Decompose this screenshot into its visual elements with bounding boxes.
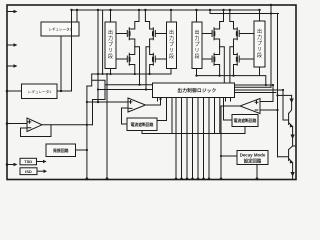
wire reg2 bottom	[60, 36, 62, 91]
wire block C bottom	[196, 69, 198, 76]
svg-text:TSD: TSD	[24, 159, 32, 164]
wire decay input	[221, 155, 237, 157]
wire ISD arrow	[37, 170, 44, 172]
wire block A top	[110, 10, 112, 22]
wire block D top	[259, 10, 261, 21]
wire block B bottom	[170, 69, 172, 75]
junction dots	[70, 9, 72, 11]
wire decay bottom	[256, 165, 258, 180]
VM supply rail	[72, 9, 260, 11]
wire block A left control	[87, 74, 153, 125]
wire sense pin drop x107	[106, 74, 108, 179]
node OUT3	[220, 47, 225, 83]
oscillator box	[46, 144, 76, 157]
pin arrow 3	[14, 64, 18, 68]
svg-text:設定回路: 設定回路	[244, 157, 262, 164]
transistor Q7 high-side col4	[230, 10, 254, 47]
wire chain mid	[289, 127, 293, 150]
wire block A bottom	[110, 69, 112, 75]
svg-text:ISD: ISD	[25, 169, 32, 174]
node OUT2	[146, 47, 150, 90]
wire cross link y133.5	[142, 133, 245, 135]
wire vref drop x86	[86, 86, 88, 179]
transistor Q2 low-side col1	[116, 47, 135, 74]
wire comparator U1 output	[146, 98, 161, 106]
pre-driver block C	[192, 22, 202, 69]
wire block C top	[196, 10, 198, 22]
TSD arrow head	[43, 160, 47, 164]
wire op-amp input	[7, 123, 27, 125]
wire comparator U2 input a	[260, 101, 273, 103]
pre-driver block D	[254, 21, 265, 67]
bus line 4	[192, 98, 194, 180]
transistor Q3 high-side col2	[145, 10, 166, 47]
pin tick 3	[7, 65, 14, 67]
svg-text:レギュレータ1: レギュレータ1	[28, 89, 52, 94]
wire logic input y89.5	[98, 89, 153, 91]
wire TSD arrow	[37, 161, 44, 163]
wire logic out y92.5	[235, 92, 277, 94]
wire right vcc drop	[277, 14, 279, 157]
svg-text:電流遮断回路: 電流遮断回路	[234, 118, 257, 123]
bus line short b	[214, 98, 216, 134]
wire box1 feedback	[122, 108, 129, 124]
bus line 2	[181, 98, 183, 180]
pin arrow 2	[14, 43, 18, 47]
bus line 7	[208, 98, 210, 180]
wire sense to comparator U2	[266, 85, 273, 102]
VCC rail 2	[210, 5, 279, 87]
output chain line upper	[289, 95, 292, 113]
bus line 1	[175, 98, 177, 180]
pin tick 1	[7, 11, 14, 13]
current cutoff box 2	[232, 115, 258, 127]
bus line short c	[219, 98, 221, 134]
transistor Q5 high-side col3	[202, 10, 224, 47]
node OUT4	[230, 47, 234, 83]
wire comparator U2 output	[221, 106, 240, 179]
bus line 6	[203, 98, 205, 180]
chain arrow 3	[290, 172, 294, 177]
wire logic out y90	[235, 89, 284, 91]
emitter arrow Q9	[290, 124, 293, 128]
ISD arrow head	[44, 169, 48, 173]
wire base drop x283	[282, 90, 284, 120]
pin arrow 1	[14, 10, 18, 14]
wire op-amp output	[51, 124, 93, 126]
chain arrow 1	[289, 99, 293, 104]
transistor Q6 low-side col3	[202, 47, 220, 76]
wire block B top	[170, 10, 172, 22]
transistor Q1 high-side col1	[116, 10, 139, 47]
svg-text:発振回路: 発振回路	[52, 148, 69, 153]
wire comparator U2 input b	[260, 109, 278, 111]
output control logic box	[153, 83, 235, 98]
svg-text:Decay Mode: Decay Mode	[240, 153, 266, 158]
bus line 5	[197, 98, 199, 180]
bus line 3	[186, 98, 188, 180]
comparator U2 right	[240, 99, 260, 114]
sense line channel 1	[92, 73, 171, 75]
TSD box	[20, 158, 37, 165]
wire chain lower	[292, 163, 294, 179]
svg-text:出力プリ段: 出力プリ段	[108, 29, 113, 60]
pre-driver block B	[167, 22, 177, 69]
wire reg1 output	[57, 10, 72, 91]
logic bus stubs	[158, 98, 231, 102]
IC outline border	[7, 5, 296, 180]
transistor Q10	[278, 150, 293, 163]
wire box1 bottom stub	[141, 131, 143, 134]
comparator U1 left	[128, 98, 146, 112]
wire reg2 top	[76, 10, 78, 22]
wire block D bottom	[259, 67, 261, 76]
regulator box 1	[22, 84, 58, 99]
svg-text:電流遮断回路: 電流遮断回路	[131, 122, 154, 127]
wire logic out y85	[235, 84, 274, 86]
transistor Q8 low-side col4	[234, 47, 255, 76]
ISD box	[20, 168, 37, 175]
node OUT1	[135, 47, 140, 85]
wire op-amp feedback	[21, 125, 52, 137]
svg-text:レギュレータ2: レギュレータ2	[48, 27, 72, 32]
svg-text:出力制御ロジック: 出力制御ロジック	[177, 87, 216, 94]
wire chain border stub	[293, 145, 296, 147]
pre-driver block A	[105, 22, 116, 69]
current cutoff box 1	[127, 118, 157, 131]
wire box2 bottom stub	[244, 127, 246, 134]
wire logic out y87.2	[235, 86, 272, 88]
pin tick 4	[7, 164, 14, 166]
wire vcc drop x98	[97, 10, 99, 102]
sense line channel 2	[197, 76, 266, 85]
svg-text:出力プリ段: 出力プリ段	[257, 28, 262, 59]
op-amp U3	[27, 118, 42, 132]
svg-text:出力プリ段: 出力プリ段	[194, 29, 199, 60]
wire comparator U1 plus input	[87, 101, 128, 103]
transistor Q4 low-side col2	[150, 47, 167, 74]
regulator box 2	[41, 22, 79, 36]
decay mode box	[237, 151, 268, 165]
pin tick 2	[7, 44, 14, 46]
wire reg1 input	[7, 90, 22, 92]
wire oscillator output	[76, 149, 87, 151]
pin arrow 4	[14, 163, 18, 167]
wire box2 left stub	[224, 98, 233, 121]
transistor Q9	[283, 114, 293, 127]
emitter arrow Q10	[290, 160, 293, 164]
svg-text:出力プリ段: 出力プリ段	[169, 29, 174, 60]
wire box1 right stub	[157, 98, 167, 121]
wire chain top	[278, 94, 292, 96]
bus line short a	[171, 98, 173, 134]
chain arrow 2	[290, 135, 294, 140]
wire vcc drop x102.6	[102, 10, 104, 74]
